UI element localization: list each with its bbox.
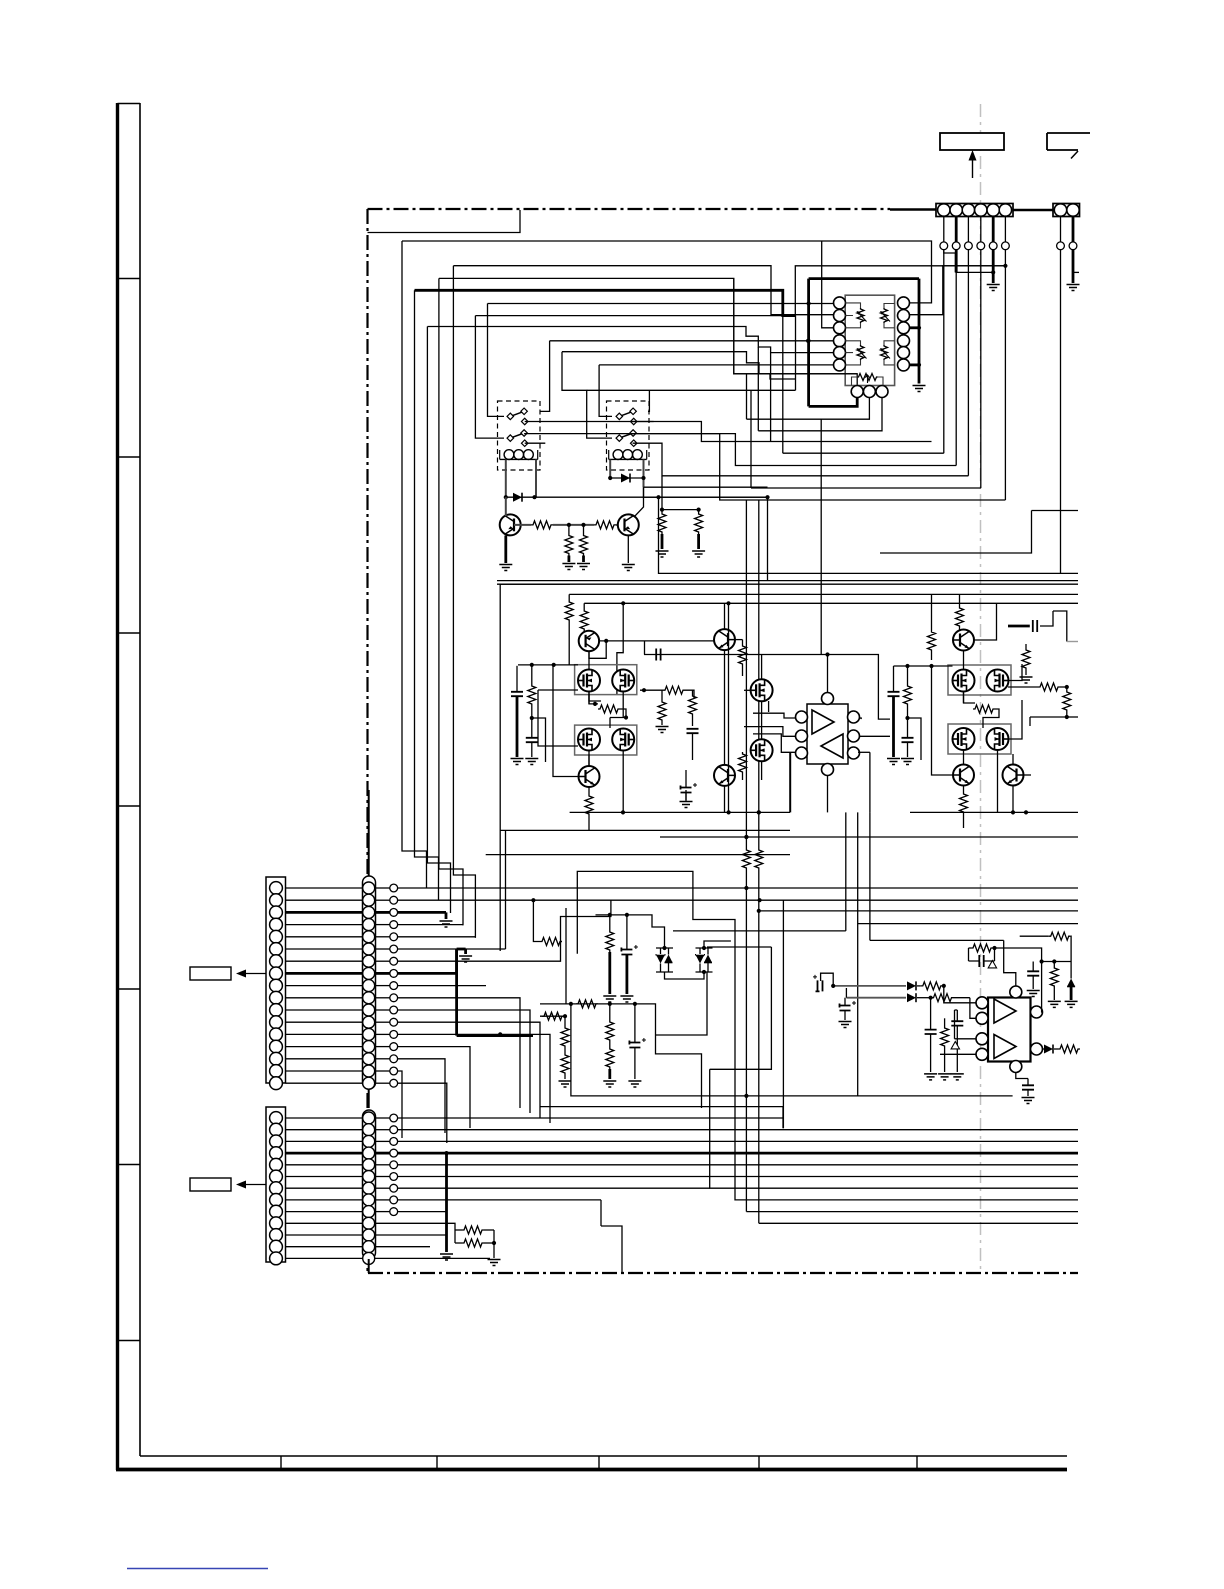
wire CN bot-2 row 1 left xyxy=(286,1117,363,1119)
wire bot row7 link xyxy=(0,0,1,1)
wire RY2 pole-b east line xyxy=(587,389,796,391)
connector CN bot-1 pin 13 xyxy=(270,1028,283,1041)
wire west line 453 xyxy=(783,452,944,454)
transistor Q19 rch lower2 xyxy=(1003,765,1024,786)
transistor Q6 lch lower right xyxy=(714,765,735,786)
wire bus A3 xyxy=(427,327,833,353)
wire bot H1130 xyxy=(0,0,1,1)
wire lch gate feed xyxy=(518,663,578,667)
pill connector P1 pin 13 xyxy=(363,1028,375,1040)
IC U3 pin bottom xyxy=(1010,1061,1022,1073)
capacitor C lch mid xyxy=(687,729,699,760)
wire CN bot-1 row 15 left xyxy=(286,1058,363,1060)
capacitor C u3 d xyxy=(1027,962,1039,990)
wire CN bot-2 row 3 tail xyxy=(398,1140,1078,1142)
ground divider2 xyxy=(577,564,590,570)
capacitor C input a (electrolytic) xyxy=(813,973,833,991)
wire Q12 down xyxy=(761,761,763,780)
wire Q2 base xyxy=(616,524,625,526)
transistor Q3 lch upper xyxy=(579,631,599,651)
arrow to label box 1 xyxy=(969,150,977,178)
ground bot res xyxy=(488,1260,501,1266)
pill connector P1 pin 14 xyxy=(363,1041,375,1053)
wire row2 branch xyxy=(533,900,540,941)
connector CN bot-1 pin 7 xyxy=(270,955,283,968)
arrow to label CN bot-2 xyxy=(236,1181,266,1189)
IC U1 bottom pin 14 xyxy=(863,386,875,398)
resistor R rch emitter xyxy=(960,792,968,828)
label box 2 (cut by page edge) xyxy=(1047,133,1090,159)
connector CN top-1 pin 1 xyxy=(938,204,950,216)
connector CN bot-1 pin 4 xyxy=(270,918,283,931)
wire band vertical 857 xyxy=(857,812,859,1096)
wire lch lower gate feed xyxy=(538,690,578,746)
IC U3 opamp A xyxy=(994,999,1016,1023)
ground lch mid xyxy=(656,727,669,733)
wire Q11 to Q12 xyxy=(761,701,763,739)
FET pair box 4 (rch) xyxy=(948,724,1011,754)
capacitor C lch-a xyxy=(511,666,523,757)
wire CN bot-1 row 9 left xyxy=(286,985,363,987)
resistor R clu1 xyxy=(606,915,614,994)
connector CN bot-2 pin 2 xyxy=(270,1123,283,1136)
wire CN bot-1 row 8 tail xyxy=(398,972,457,975)
FET Q12 single xyxy=(751,739,773,761)
wire border hook xyxy=(368,210,521,233)
wire Q5 base xyxy=(553,666,579,777)
thick net B bottom xyxy=(457,1034,533,1037)
pill connector P1 pin 10 xyxy=(363,992,375,1004)
wire band vertical 783 xyxy=(782,901,784,1129)
ground lch-a xyxy=(511,759,524,765)
wire u3 supply node row xyxy=(1040,959,1072,963)
ground u3 gnd-a xyxy=(924,1074,937,1080)
wire 795 vertical xyxy=(795,316,797,391)
pill connector P2 pin 8 xyxy=(363,1194,375,1206)
wire CN bot-2 row 3 left xyxy=(286,1140,363,1142)
wire rch out network2 xyxy=(1060,685,1069,689)
test point below CN top-1 pin 4 xyxy=(977,242,985,250)
wire pullup net 2 xyxy=(697,508,701,513)
test point below CN top-2 pin 2 xyxy=(1069,242,1077,250)
test point P1 row 4 xyxy=(375,921,398,929)
pill connector P1 pin 6 xyxy=(363,943,375,955)
wire clu bottom long xyxy=(571,1004,1013,1098)
resistor R rch-b xyxy=(956,594,964,628)
resistor R rch z xyxy=(1022,644,1030,675)
connector CN bot-1 pin 14 xyxy=(270,1040,283,1053)
wire west line 488 xyxy=(751,487,981,489)
ground clu1 xyxy=(603,996,616,1002)
pill connector P1 pin 8 xyxy=(363,967,375,979)
wire u3 b1 feed xyxy=(955,1010,977,1039)
IC U1 right pin 11 xyxy=(898,347,910,359)
capacitor C lch couple xyxy=(656,649,660,661)
resistor R clu mid xyxy=(576,1000,598,1008)
test point P1 row 9 xyxy=(375,982,398,990)
page bottom frame xyxy=(116,1456,1067,1470)
wire lch left boundary xyxy=(500,584,570,951)
wire bot links east xyxy=(0,0,1,1)
resistor R rch out xyxy=(1038,683,1060,691)
wire band 910 east xyxy=(757,909,1078,913)
wire CN bot-1 row 16 tail xyxy=(398,1071,402,1138)
IC U1 right pin 7 xyxy=(898,297,910,309)
FET Q8 lch xyxy=(612,670,634,692)
connector CN bot-2 pin 5 xyxy=(270,1158,283,1171)
wire CN1 pin5 down (thick) xyxy=(992,250,995,283)
resistor R u3 gnd-b xyxy=(941,1026,949,1072)
wire lch gate2 xyxy=(598,709,628,720)
test point P1 row 7 xyxy=(375,957,398,965)
wire CN bot-1 row 15 tail xyxy=(398,1059,445,1133)
IC U2 left pin 1 xyxy=(796,711,808,723)
wire lch drain chain right xyxy=(622,692,624,813)
capacitor C u3 f xyxy=(1022,1079,1034,1097)
wire Q4 collector up xyxy=(724,603,726,629)
IC U3 right pin b xyxy=(1031,1043,1043,1055)
diode D u3 out xyxy=(1043,1045,1059,1054)
wire CN bot-1 row 7 tail xyxy=(398,942,561,962)
wire U2 left feeds xyxy=(744,713,796,752)
test point below CN top-1 pin 6 xyxy=(1002,242,1010,250)
diode D input a xyxy=(907,981,921,990)
pin lead CN top-1 pin 4 xyxy=(980,217,982,242)
wire bus A5 vertical xyxy=(453,266,475,938)
relay RY2 coil leads xyxy=(610,460,643,488)
wire CN bot-1 row 13 tail xyxy=(398,1032,550,1123)
pill connector P1 pin 17 xyxy=(363,1077,375,1089)
FET Q15 rch xyxy=(953,670,975,692)
wire bus vert 746 east xyxy=(746,1211,1078,1213)
ground lch g xyxy=(680,802,693,808)
pill connector P2 pin 5 xyxy=(363,1159,375,1171)
wire U2 top feed xyxy=(825,652,829,692)
wire lch mid node xyxy=(642,688,646,692)
label box 1 xyxy=(940,133,1004,150)
IC U2 pin top xyxy=(822,693,834,705)
triangle mark 1 xyxy=(988,961,996,968)
wire Q2 emitter to ground xyxy=(627,536,629,564)
wire row2 branch2 xyxy=(561,901,611,942)
resistor R bot-b xyxy=(455,1230,496,1247)
label box CN bot-1 xyxy=(190,967,231,980)
wire u3 fb to output xyxy=(995,948,1043,1012)
IC U2 left pin 2 xyxy=(796,730,808,742)
board border top xyxy=(368,208,937,211)
wire CN bot-1 row 1 tail xyxy=(398,886,749,890)
IC U3 body xyxy=(988,998,1031,1062)
relay RY1 outline xyxy=(498,401,541,470)
wire CN1 pin1 jog to ground net xyxy=(944,250,956,273)
junction bus A7/A9 xyxy=(1003,264,1007,268)
wire CN bot-2 row 5 left xyxy=(286,1164,363,1166)
connector CN bot-1 pin 16 xyxy=(270,1065,283,1078)
pin lead CN top-1 pin 6 xyxy=(1004,217,1006,242)
wire staircase step extension 770 xyxy=(770,353,772,442)
wire bus vert 746 bottom xyxy=(0,0,1,1)
IC U3 left pin b1 xyxy=(976,1033,988,1045)
wire u3 bottom pin xyxy=(1016,1073,1028,1079)
zener diode pair 2 xyxy=(696,948,713,972)
page fold line xyxy=(980,104,982,1272)
ground below CN top-1 xyxy=(987,285,1000,291)
transistor Q2 (relay driver) xyxy=(618,514,639,535)
wire CN bot-2 row 6 left xyxy=(286,1176,363,1178)
wire bus V401 lower xyxy=(0,0,1,1)
pin lead CN top-1 pin 3 xyxy=(967,217,969,242)
resistor R rch out2 xyxy=(1063,687,1071,719)
wire CN bot-1 row 5 left xyxy=(286,936,363,938)
wire U2 right feeds xyxy=(858,718,890,752)
capacitor C rch-a xyxy=(888,666,900,757)
pin lead CN top-2 pin 2 xyxy=(1072,217,1075,242)
wire CN bot-1 row 13 left xyxy=(286,1033,363,1035)
test point P1 row 1 xyxy=(375,884,398,892)
wire lch fet2 gates xyxy=(610,718,626,729)
pill connector P1 pin 5 xyxy=(363,931,375,943)
FET pair box 3 (rch) xyxy=(948,665,1011,695)
wire U2 r3 riser xyxy=(869,752,871,812)
wire Q1 collector xyxy=(505,497,507,516)
wire CN bot-2 row 8 left xyxy=(286,1199,363,1201)
pill connector P2 pin 11 xyxy=(363,1229,375,1241)
resistor R (divider1) xyxy=(565,525,573,562)
wire band 923 east xyxy=(858,923,1078,925)
wire bus A1 xyxy=(402,241,932,303)
test point P1 row 14 xyxy=(375,1043,398,1051)
wire U2 bottom xyxy=(827,776,829,813)
capacitor C input b (electrolytic) xyxy=(840,998,857,1020)
wire CN bot-2 row 10 tail xyxy=(375,1223,455,1230)
wire pullup net 1 xyxy=(660,476,699,512)
relay RY2 throw-a stub xyxy=(633,421,654,423)
wire lch source net xyxy=(589,694,598,706)
pill connector P1 pin 3 xyxy=(363,906,375,918)
test point below CN top-2 pin 1 xyxy=(1057,242,1065,250)
resistor R clu m2 xyxy=(606,1042,614,1079)
connector CN top-1 pin 6 xyxy=(999,204,1011,216)
wire IC pin6 feed xyxy=(599,364,833,366)
IC U2 opamp B xyxy=(821,734,843,758)
connector CN top-2 pin 1 xyxy=(1054,204,1066,216)
IC U3 opamp B xyxy=(994,1035,1016,1059)
wire CN1 pin1 long down xyxy=(943,250,945,454)
connector CN bot-1 pin 6 xyxy=(270,943,283,956)
wire long row1 east xyxy=(746,887,1078,889)
wire Q3 emitter loop xyxy=(589,641,606,658)
wire bus vert 758 east xyxy=(759,1222,1078,1224)
test point P1 row 8 xyxy=(375,970,398,978)
diode D1 (relay RY1 flyback) xyxy=(504,493,537,502)
wire Q1 base net xyxy=(553,523,594,527)
wire CN bot-2 row 9 tail xyxy=(398,1211,447,1213)
wire rch out3 xyxy=(1030,717,1067,726)
wire bot vert drop extra xyxy=(601,1226,622,1273)
connector CN top-2 pin 2 xyxy=(1067,204,1079,216)
wire P2 stem bottom xyxy=(368,1259,370,1273)
wire rch drain chain xyxy=(964,651,998,812)
FET Q10 lch xyxy=(612,729,634,751)
connector CN top-1 pin 2 xyxy=(950,204,962,216)
wire u3 b2 feed xyxy=(940,1053,976,1055)
wire RY2 right node xyxy=(765,495,769,499)
pill connector P2 pin 12 xyxy=(363,1241,375,1253)
wire rail end drop xyxy=(789,752,791,812)
thick ground drop CN bot-2 xyxy=(445,1153,448,1252)
test point P2 row 2 xyxy=(375,1126,398,1134)
capacitor C u3 feedback xyxy=(969,948,995,967)
wire band vertical 869 to opamp supply xyxy=(870,812,1004,940)
IC U1 right pin 12 xyxy=(898,359,910,371)
relay RY1 throw-b stub xyxy=(525,442,546,444)
test point below CN top-1 pin 1 xyxy=(940,242,948,250)
wire rch-b link xyxy=(908,718,922,760)
test point P1 row 10 xyxy=(375,994,398,1002)
test point P1 row 3 xyxy=(375,909,398,917)
wire lch b link xyxy=(532,718,546,762)
resistor R rch-c xyxy=(904,666,912,720)
ground CN bot-2 xyxy=(440,1254,453,1260)
wire CN bot-1 row 10 tail xyxy=(398,998,520,1108)
wire bus A3 vertical xyxy=(427,327,450,914)
pill connector P2 pin 2 xyxy=(363,1124,375,1136)
resistor R top bus 746 xyxy=(742,835,750,888)
wire mid vertical 751 xyxy=(750,390,752,488)
wire input a to pin xyxy=(944,986,976,1003)
pill connector P2 pin 10 xyxy=(363,1217,375,1229)
pill connector P2 body xyxy=(363,1110,376,1259)
connector CN bot-1 pin 15 xyxy=(270,1052,283,1065)
connector CN bot-1 pin 1 xyxy=(270,882,283,895)
wire bus A10 to relay RY2 xyxy=(562,352,612,438)
wire CN bot-1 row 3 left xyxy=(286,911,363,914)
wire bus V-mid 733.8 xyxy=(734,278,857,374)
wire P1 stem bottom xyxy=(368,1089,370,1108)
wire Q4 emitter chain xyxy=(724,650,726,765)
test point below CN top-1 pin 2 xyxy=(952,242,960,250)
wire bus bottom row7 xyxy=(0,0,1,1)
ground u3 e xyxy=(1048,1001,1061,1007)
wire clu mid row xyxy=(540,1002,702,1108)
wire CN2 pin2 down (thick) xyxy=(1072,250,1075,283)
pill connector P2 pin 4 xyxy=(363,1147,375,1159)
resistor R lch mid2 xyxy=(658,690,666,725)
IC U2 pin bottom xyxy=(822,764,834,776)
IC U1 right pin wires thick xyxy=(910,326,921,367)
connector CN top-1 body xyxy=(936,204,1013,217)
ground u3 gnd-c xyxy=(951,1074,964,1080)
wire mid link xyxy=(767,497,769,580)
wire bus A9 right-pin2 link xyxy=(910,266,1006,315)
connector CN bot-1 pin 5 xyxy=(270,930,283,943)
relay RY2 contact a xyxy=(616,408,637,425)
FET pair box 2 (lch) xyxy=(575,725,637,755)
connector CN bot-2 pin 7 xyxy=(270,1182,283,1195)
connector CN bot-1 pin 3 xyxy=(270,906,283,919)
test point P1 row 6 xyxy=(375,945,398,953)
wire Q1 base resistor lead xyxy=(514,524,531,526)
resistor R bot-a xyxy=(455,1226,494,1234)
wire cluster left2 xyxy=(565,908,567,1004)
wire clu right link xyxy=(656,972,708,1035)
test point P1 row 15 xyxy=(375,1055,398,1063)
resistor R lch emitter xyxy=(585,794,593,830)
connector CN bot-1 pin 8 xyxy=(270,967,283,980)
wire CN1 pin2 down (thick) xyxy=(955,250,958,273)
wire CN bot-2 row 13 left xyxy=(286,1257,363,1259)
ground divider1 xyxy=(562,564,575,570)
wire Q5 emitter resistor xyxy=(588,787,590,794)
wire heavy ground rail xyxy=(918,279,921,384)
connector CN bot-2 pin 3 xyxy=(270,1135,283,1148)
connector CN top-1 pin 5 xyxy=(987,204,999,216)
wire CN bot-2 row 10 left xyxy=(286,1222,363,1224)
wire IC pin1-pin4 tie (thick riser) xyxy=(807,279,811,407)
wire CN bot-1 row 12 tail xyxy=(398,1022,540,1118)
FET Q7 lch xyxy=(578,670,600,692)
wire CN bot-2 row 7 tail xyxy=(398,1187,710,1189)
IC U3 right pin a xyxy=(1031,1006,1043,1018)
wire relay RY1 node to right xyxy=(535,495,768,499)
IC U2 right pin 3 xyxy=(848,747,860,759)
wire RY2 pole-a feed xyxy=(599,365,612,417)
wire lch drain chain left xyxy=(588,652,590,767)
resistor R q6 xyxy=(739,752,747,780)
IC U1 pot 2 xyxy=(880,308,890,323)
relay RY2 throw-b wire xyxy=(633,443,969,476)
test point P2 row 5 xyxy=(375,1161,398,1169)
wire supply riser 758 xyxy=(757,500,761,815)
wire bot res node xyxy=(493,1230,495,1258)
resistor R top bus 758 xyxy=(755,812,763,900)
capacitor C u3 gnd-a xyxy=(925,996,937,1072)
wire rail 860 xyxy=(0,0,1,1)
wire rch gate2 xyxy=(983,709,999,728)
IC U2 right pin 1 xyxy=(848,711,860,723)
wire CN bot-2 row 4 tail xyxy=(398,1151,1078,1155)
wire CN bot-2 row 12 tail xyxy=(375,1246,430,1248)
relay RY1 throw-a east wire xyxy=(525,422,932,442)
test point P2 row 6 xyxy=(375,1173,398,1181)
transistor Q14 rch lower xyxy=(953,765,974,786)
connector CN bot-1 pin 2 xyxy=(270,894,283,907)
IC U1 body xyxy=(845,295,894,385)
resistor R (Q1 base) xyxy=(531,521,553,529)
connector CN bot-2 pin 9 xyxy=(270,1205,283,1218)
resistor R lch-b xyxy=(580,603,588,632)
ground u3 z xyxy=(1065,1001,1078,1007)
wire CN bot-2 row 6 tail xyxy=(398,1176,1078,1178)
relay RY1 contact b xyxy=(507,430,528,447)
resistor R pullup1 xyxy=(658,512,666,549)
test point P2 row 3 xyxy=(375,1138,398,1146)
pill connector P1 body xyxy=(363,876,376,1089)
wire gray tail 1 xyxy=(0,0,1,1)
wire bus vert 734.8 xyxy=(735,1108,1078,1200)
zener diode pair 1 xyxy=(656,948,673,972)
wire q13 collector xyxy=(959,628,961,630)
test point P2 row 1 xyxy=(375,1114,398,1122)
page left registration strip xyxy=(118,103,141,1470)
IC U2 left pin 3 xyxy=(796,747,808,759)
test point P1 row 2 xyxy=(375,896,398,904)
wire bot long 1096 xyxy=(0,0,1,1)
ground rch-b xyxy=(901,759,914,765)
ground u3 f xyxy=(1022,1098,1035,1104)
resistor R div1 xyxy=(561,1026,569,1048)
diode D2 (relay RY2 flyback) xyxy=(608,474,646,483)
